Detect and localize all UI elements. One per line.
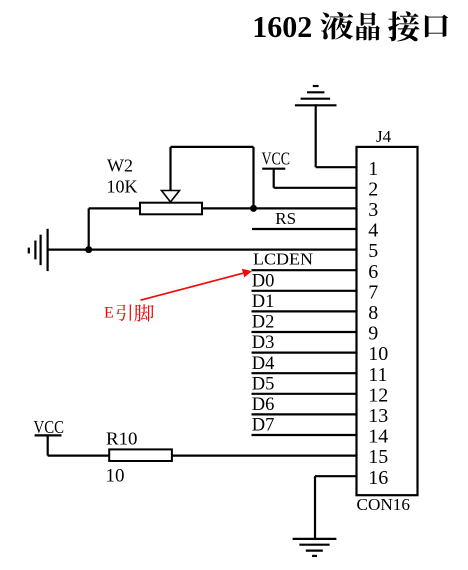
svg-text:D6: D6	[252, 395, 275, 415]
wire D5 to pin 12	[252, 393, 357, 395]
svg-text:D1: D1	[252, 292, 275, 312]
svg-text:12: 12	[368, 384, 388, 406]
svg-text:10K: 10K	[107, 177, 138, 197]
wire D0 to pin 7	[252, 290, 357, 292]
svg-text:8: 8	[368, 302, 378, 324]
svg-text:D5: D5	[252, 374, 275, 394]
svg-text:D2: D2	[252, 313, 275, 333]
svg-text:D3: D3	[252, 333, 275, 353]
svg-text:14: 14	[368, 426, 388, 448]
wire D4 to pin 11	[252, 372, 357, 374]
title "1602液晶接口"	[252, 9, 448, 44]
wire D3 to pin 10	[252, 352, 357, 354]
svg-text:5: 5	[368, 240, 378, 262]
svg-text:15: 15	[368, 446, 388, 468]
svg-text:RS: RS	[275, 209, 296, 228]
svg-text:1602: 1602	[252, 9, 312, 44]
svg-text:10: 10	[106, 465, 125, 486]
svg-text:1: 1	[368, 158, 378, 180]
wire: pot right lead to pin 3	[202, 207, 357, 209]
wire: left ground to pin 5 (RW)	[48, 249, 357, 251]
svg-text:LCDEN: LCDEN	[253, 250, 313, 269]
svg-text:3: 3	[368, 199, 378, 221]
svg-text:7: 7	[368, 281, 378, 303]
svg-text:W2: W2	[107, 155, 133, 175]
svg-text:13: 13	[368, 405, 388, 427]
power VCC (top)	[262, 148, 291, 168]
svg-text:VCC: VCC	[262, 148, 291, 168]
wire D2 to pin 9	[252, 331, 357, 333]
annotation text E引脚	[104, 304, 154, 321]
svg-text:4: 4	[368, 220, 378, 242]
svg-text:J4: J4	[376, 127, 392, 146]
svg-text:10: 10	[368, 343, 388, 365]
svg-text:2: 2	[368, 178, 378, 200]
power VCC (bottom)	[34, 417, 65, 437]
wire: VCC to pin 2	[274, 169, 357, 188]
wire RS to pin 4	[252, 228, 357, 230]
junction node (pot left/ground rail)	[85, 246, 92, 253]
svg-text:11: 11	[368, 364, 387, 386]
svg-text:VCC: VCC	[34, 417, 65, 437]
svg-text:CON16: CON16	[357, 495, 411, 514]
svg-text:E: E	[104, 304, 114, 321]
wire: VCC to R10	[48, 455, 109, 457]
svg-text:R10: R10	[106, 429, 138, 449]
svg-text:D0: D0	[252, 271, 275, 291]
wire: pin 16 to bottom ground	[315, 476, 357, 539]
wire D7 to pin 14	[252, 434, 357, 436]
wire D6 to pin 13	[252, 413, 357, 415]
wire: pot left lead down to ground rail	[89, 208, 140, 249]
junction node (wiper/pin3)	[250, 205, 257, 212]
ground (bottom)	[293, 539, 337, 556]
annotation arrow (E pin pointer)	[141, 269, 253, 300]
svg-text:16: 16	[368, 467, 388, 489]
connector J4 box	[357, 147, 418, 495]
wire D1 to pin 8	[252, 310, 357, 312]
svg-text:6: 6	[368, 261, 378, 283]
wire: VCC down to R10 rail	[47, 435, 49, 455]
wire: top ground to pin 1	[316, 104, 357, 167]
ground (left)	[29, 229, 48, 271]
wire: wiper loop to pin 3	[171, 147, 254, 209]
ground (top, at J4 pin 1)	[295, 86, 337, 105]
wire LCDEN to pin 6	[252, 269, 357, 271]
potentiometer W2 10K	[140, 191, 202, 215]
svg-text:D4: D4	[252, 354, 275, 374]
svg-text:9: 9	[368, 323, 378, 345]
wire: R10 to pin 15	[172, 455, 357, 457]
svg-text:D7: D7	[252, 416, 275, 436]
resistor R10	[109, 449, 172, 461]
